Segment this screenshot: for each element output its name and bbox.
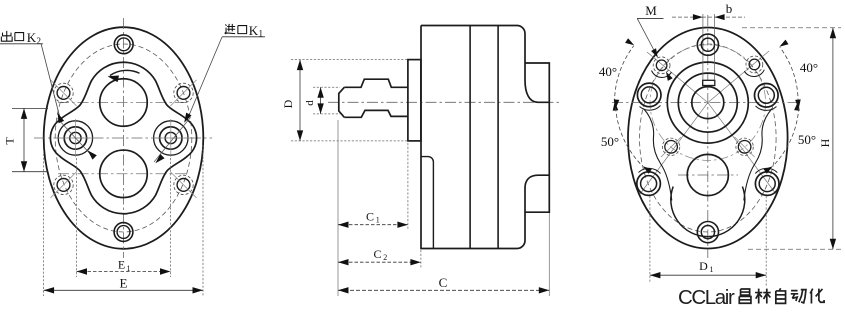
inlet port K1 rings	[165, 132, 176, 143]
40deg arc left	[615, 46, 634, 103]
horizontal centerline through shaft (rear view)	[612, 102, 801, 104]
bolt hole lower-left (front)	[57, 179, 70, 192]
M thread hole upper-right	[749, 59, 760, 70]
diagonal through K2 port	[58, 119, 95, 159]
watermark 昌林自动化	[739, 289, 751, 303]
dimension C	[548, 213, 550, 296]
vertical centerline (rear view)	[707, 15, 709, 258]
cavity bottom arc (rear view)	[671, 187, 745, 237]
svg-text:M: M	[645, 3, 657, 18]
50deg diagonal down-left	[640, 103, 708, 194]
screw pitch circle around shaft (rear view)	[650, 45, 766, 161]
vertical centerline (front view)	[123, 18, 125, 258]
bottom gear bore	[100, 150, 148, 198]
dimension C2	[420, 250, 422, 268]
svg-text:1: 1	[376, 216, 380, 225]
keyway width extension lines	[702, 14, 704, 80]
bolt circle (dashed oval, front view)	[55, 44, 192, 232]
bolt hole bottom (front)	[114, 223, 133, 242]
pump rear view: body oval	[628, 28, 788, 249]
mid hole left cross	[661, 137, 681, 157]
corner bolt 45deg centerlines (front view)	[51, 80, 77, 106]
svg-text:C: C	[373, 247, 381, 261]
bottom gear row centerline (front view)	[58, 173, 189, 175]
leader for inlet label	[189, 37, 223, 117]
drive shaft profile	[344, 79, 408, 87]
cavity S-curve left (rear view)	[644, 109, 672, 201]
label 出口K2	[1, 31, 12, 41]
shaft bore	[692, 87, 724, 119]
svg-text:40°: 40°	[599, 64, 617, 79]
svg-text:C: C	[439, 275, 448, 290]
bolt hole lower-right (rear)	[755, 172, 779, 196]
keyway	[703, 80, 715, 85]
40deg diagonal up-left	[647, 52, 708, 103]
svg-text:40°: 40°	[800, 60, 818, 75]
rotation direction arrow	[110, 70, 140, 75]
svg-text:50°: 50°	[798, 132, 816, 147]
svg-text:1: 1	[710, 265, 714, 274]
svg-text:1: 1	[127, 264, 131, 273]
joint body/rear-cover	[497, 26, 499, 249]
front cover step	[421, 157, 433, 249]
bolt hole top (rear)	[697, 34, 718, 55]
top gear bore	[100, 79, 148, 127]
mid hole left	[665, 141, 678, 154]
bolt hole upper-right (front)	[177, 87, 190, 100]
pump front view: body oval	[44, 27, 204, 249]
bolt circle (dashed oval, rear view)	[640, 44, 777, 232]
boss arc upper-right bolt	[756, 106, 777, 110]
shaft centerline (side view)	[328, 101, 560, 103]
svg-text:b: b	[726, 1, 733, 16]
port K2 centerline cross	[56, 137, 95, 139]
40deg diagonal up-right	[708, 51, 769, 103]
dimension D1	[649, 196, 651, 282]
port K1 centerline cross	[151, 137, 190, 139]
50deg arc left	[616, 108, 643, 166]
bolt hole upper-right (rear)	[755, 84, 779, 108]
horizontal centerline (front view)	[34, 137, 212, 139]
boss arc upper-left bolt	[640, 106, 661, 111]
gear cavity outline	[50, 62, 196, 213]
bolt hole top (front)	[114, 35, 133, 54]
boss arc around M hole left	[652, 71, 672, 78]
shaft middle circle	[678, 73, 737, 132]
M thread hole upper-left	[656, 60, 667, 71]
svg-text:K: K	[249, 23, 259, 38]
svg-text:E: E	[118, 258, 125, 272]
dimension E1	[76, 158, 78, 277]
svg-text:CCLair: CCLair	[678, 286, 735, 309]
diagonal through K1 port	[154, 118, 190, 162]
rear port boss (side view)	[525, 63, 549, 212]
dimension C1	[337, 120, 339, 296]
mounting spigot	[408, 60, 421, 141]
boss arc around M hole right	[744, 70, 764, 77]
dimension D	[291, 59, 408, 61]
bolt hole upper-left (rear)	[637, 83, 661, 107]
dimension T	[12, 107, 48, 109]
bolt hole lower-right (front)	[177, 179, 190, 192]
svg-text:d: d	[304, 100, 316, 106]
K1 port flow arrows (inlet: point down-left)	[184, 113, 191, 123]
outlet port K2 rings	[70, 132, 81, 143]
cavity S-curve right (rear view)	[744, 109, 772, 201]
dimension E	[43, 150, 45, 296]
svg-text:T: T	[3, 137, 17, 145]
boss arc lower-right bolt	[755, 168, 777, 173]
dimension H	[742, 27, 841, 29]
svg-text:E: E	[120, 276, 128, 291]
svg-text:2: 2	[37, 36, 42, 46]
label 进口K1	[225, 24, 235, 34]
40deg arc right	[780, 47, 798, 102]
svg-text:D: D	[699, 259, 708, 273]
K2 port flow arrows (outlet: point up-left)	[58, 113, 65, 123]
svg-text:D: D	[281, 99, 295, 108]
idler gear shaft circle (rear view)	[687, 154, 728, 195]
joint front-cover/body	[469, 26, 471, 249]
bolt hole bottom (rear)	[697, 222, 718, 243]
dimension b	[672, 16, 745, 18]
mid hole right cross	[735, 137, 755, 157]
svg-text:2: 2	[383, 253, 387, 262]
svg-text:H: H	[818, 138, 832, 147]
svg-text:C: C	[366, 210, 374, 224]
horizontal centerline through idler gear (rear view)	[678, 174, 738, 176]
shaft boss outer circle (rear view)	[667, 62, 748, 143]
50deg diagonal down-right	[708, 103, 776, 194]
svg-text:K: K	[27, 30, 37, 45]
top gear row centerline (front view)	[58, 102, 189, 104]
50deg arc right	[773, 108, 799, 166]
bolt hole lower-left (rear)	[637, 172, 661, 196]
leader for outlet label	[41, 44, 60, 117]
mid hole right	[738, 141, 751, 154]
svg-text:50°: 50°	[601, 134, 619, 149]
dimension d	[313, 86, 340, 88]
bolt hole upper-left (front)	[57, 87, 70, 100]
body block outline (side view)	[421, 26, 549, 103]
boss arc lower-left bolt	[639, 168, 661, 173]
